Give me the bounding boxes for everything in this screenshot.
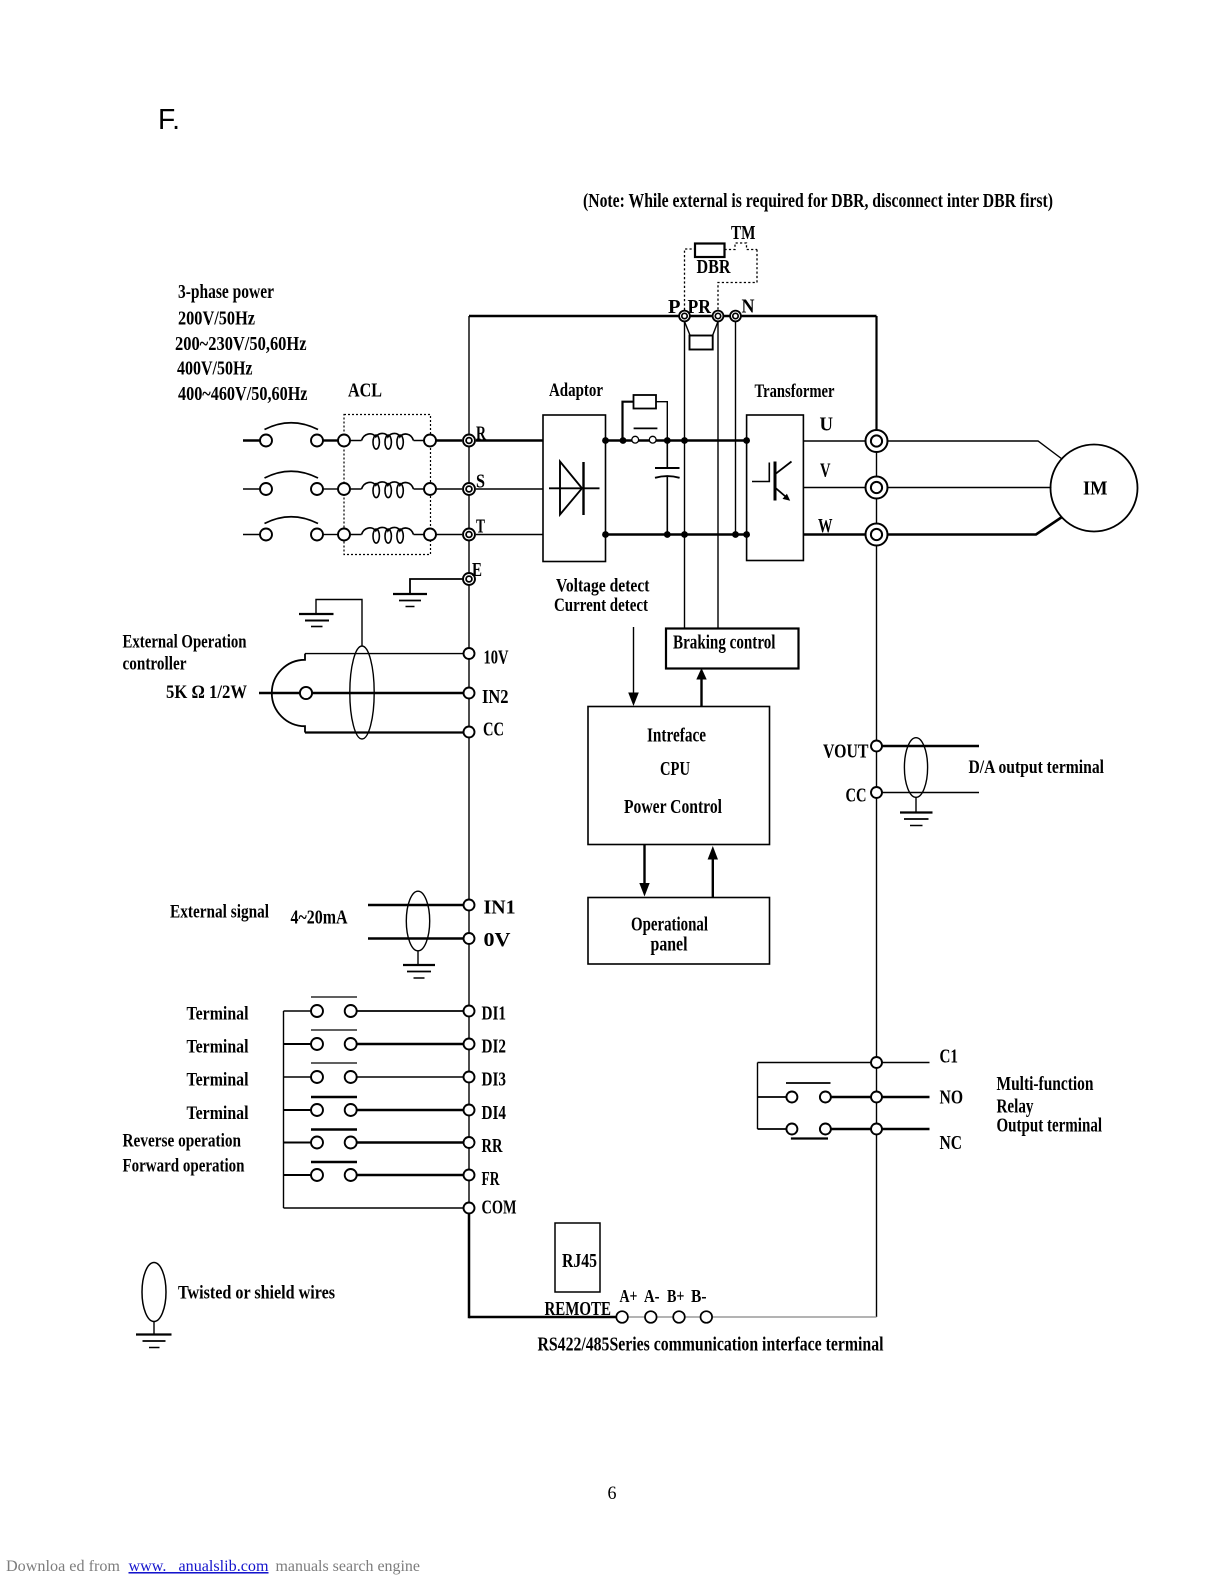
svg-text:R: R <box>476 424 487 445</box>
bottom bus bold <box>469 1316 617 1319</box>
resistor DBR <box>695 244 725 258</box>
wire ACL to terminal T <box>436 534 462 536</box>
svg-text:Transformer: Transformer <box>755 381 835 402</box>
dotted wire P to DBR <box>685 249 696 310</box>
phase row R: wire <box>243 439 260 441</box>
ACL R output circle <box>424 435 436 447</box>
svg-text:RR: RR <box>482 1136 504 1157</box>
inductor L1 coil <box>362 433 414 440</box>
wire ACL to terminal R <box>436 439 462 441</box>
svg-text:Current detect: Current detect <box>554 595 649 616</box>
svg-text:T: T <box>476 517 485 538</box>
svg-text:200~230V/50,60Hz: 200~230V/50,60Hz <box>175 334 307 355</box>
svg-text:DI3: DI3 <box>482 1070 507 1091</box>
svg-text:Terminal: Terminal <box>187 1103 249 1124</box>
adaptor resistor <box>634 395 657 409</box>
svg-text:E: E <box>472 560 482 581</box>
coil lead wires <box>350 534 424 536</box>
relay bracket <box>757 1063 759 1130</box>
DI3 stub <box>284 1076 312 1078</box>
RJ45 box <box>555 1223 600 1292</box>
phase row S: wire <box>243 488 260 490</box>
svg-text:N: N <box>742 296 755 318</box>
transformer box <box>747 415 804 561</box>
DC- bus <box>606 533 747 535</box>
shield ellipse D/A <box>904 738 927 798</box>
adaptor resistor right leg <box>656 402 667 441</box>
switch NO bar <box>786 1082 831 1084</box>
IGBT Q1 <box>752 462 792 501</box>
switch DI4 bar <box>311 1096 357 1098</box>
dotted wire TM to PR <box>718 250 757 311</box>
switch DI1 bar <box>311 996 357 998</box>
svg-text:CC: CC <box>846 786 867 807</box>
svg-text:4~20mA: 4~20mA <box>291 908 348 929</box>
svg-text:Relay: Relay <box>997 1097 1034 1118</box>
left terminal bus <box>468 316 470 1208</box>
svg-text:5K Ω 1/2W: 5K Ω 1/2W <box>166 682 247 703</box>
switch T contact left <box>260 529 272 541</box>
svg-text:PR: PR <box>688 296 712 318</box>
wire DI4 <box>357 1109 463 1111</box>
ACL T output circle <box>424 529 436 541</box>
switch R contact left <box>260 435 272 447</box>
switch RR circles <box>311 1137 357 1149</box>
shield ellipse external signal <box>406 891 429 951</box>
adaptor resistor left leg <box>623 402 634 441</box>
svg-text:TM: TM <box>731 223 756 244</box>
FR stub <box>284 1174 312 1176</box>
svg-text:(Note: While external is requi: (Note: While external is required for DB… <box>583 191 1053 212</box>
right bus lower <box>876 441 878 1317</box>
svg-text:U: U <box>820 414 834 436</box>
arrow detect to CPU <box>628 627 639 706</box>
svg-text:Downloa ed fromwww. anualsli: Downloa ed fromwww. anualslib.commanuals… <box>6 1558 420 1575</box>
capacitor C1 bottom lead <box>666 477 668 535</box>
DI1 stub <box>284 1010 312 1012</box>
arrow CPU to braking control <box>696 668 706 707</box>
braking control box <box>666 629 799 669</box>
svg-text:panel: panel <box>651 935 688 956</box>
terminal IN1 <box>464 900 475 911</box>
potentiometer body <box>272 654 305 733</box>
svg-text:NO: NO <box>940 1088 964 1109</box>
svg-text:Twisted or shield wires: Twisted or shield wires <box>178 1283 335 1304</box>
DC+ bus <box>606 439 747 441</box>
shield drain wire <box>316 600 362 647</box>
svg-text:A-: A- <box>644 1286 660 1306</box>
svg-text:A+: A+ <box>620 1286 638 1306</box>
svg-text:ACL: ACL <box>348 381 382 402</box>
switch S contact right <box>311 483 323 495</box>
switch DI3 circles <box>311 1071 357 1083</box>
terminal T <box>463 529 475 541</box>
shield external drain <box>417 951 419 964</box>
switch FR bar <box>311 1161 357 1163</box>
svg-text:DI4: DI4 <box>482 1103 507 1124</box>
wire IN2 <box>312 692 464 694</box>
svg-text:IN2: IN2 <box>482 687 509 708</box>
adaptor contact circle right <box>649 436 656 443</box>
wire P down to braking control <box>684 316 686 629</box>
svg-text:NC: NC <box>940 1133 963 1154</box>
coil lead wires <box>350 440 424 442</box>
ACL R input circle <box>338 435 350 447</box>
switch DI1 circles <box>311 1005 357 1017</box>
wire top bus <box>469 315 877 318</box>
svg-text:D/A output terminal: D/A output terminal <box>969 757 1105 778</box>
wire COM <box>284 1207 464 1209</box>
switch FR circles <box>311 1169 357 1181</box>
svg-text:W: W <box>818 515 833 537</box>
jumper bar P-PR <box>685 322 719 350</box>
wire V terminal to motor <box>887 487 1051 489</box>
svg-text:C1: C1 <box>940 1047 959 1068</box>
ground external signal <box>403 965 435 978</box>
svg-text:400~460V/50,60Hz: 400~460V/50,60Hz <box>178 384 308 405</box>
inductor L2 coil <box>362 482 414 489</box>
svg-text:CC: CC <box>483 720 504 741</box>
wire T to rectifier <box>476 534 543 536</box>
dotted wire DBR to TM contact <box>725 243 758 250</box>
svg-text:External signal: External signal <box>170 902 269 923</box>
wire R to rectifier <box>476 439 543 441</box>
svg-text:Forward operation: Forward operation <box>123 1156 245 1177</box>
wire NC left <box>758 1128 787 1130</box>
terminal S <box>463 483 475 495</box>
wire NO left <box>758 1096 787 1098</box>
svg-text:REMOTE: REMOTE <box>545 1299 612 1320</box>
wire S switch to ACL <box>323 488 338 490</box>
terminal 10V <box>464 648 475 659</box>
svg-text:Power Control: Power Control <box>624 797 722 818</box>
shield ellipse controller <box>350 646 374 739</box>
svg-text:FR: FR <box>482 1169 501 1190</box>
switch T contact right <box>311 529 323 541</box>
wire PR down to braking control <box>717 316 719 629</box>
wire V to terminal <box>803 487 865 489</box>
svg-text:3-phase power: 3-phase power <box>178 282 274 303</box>
operational panel box <box>588 898 770 965</box>
terminal U <box>866 430 888 452</box>
left bus bold segment below COM <box>468 1208 471 1318</box>
wire RR <box>357 1141 463 1143</box>
svg-text:IN1: IN1 <box>484 898 516 919</box>
svg-text:P: P <box>668 296 681 318</box>
terminal C1 <box>871 1057 882 1068</box>
svg-text:RJ45: RJ45 <box>562 1251 597 1272</box>
svg-text:controller: controller <box>123 654 187 675</box>
svg-text:Intreface: Intreface <box>647 726 706 747</box>
svg-text:IM: IM <box>1083 478 1108 500</box>
wire DI3 <box>357 1076 463 1078</box>
terminal V <box>866 477 888 499</box>
terminal 0V <box>464 933 475 944</box>
terminal A+ <box>616 1311 628 1323</box>
svg-text:0V: 0V <box>484 930 511 951</box>
svg-text:Terminal: Terminal <box>187 1070 249 1091</box>
adaptor contact circle left <box>632 436 639 443</box>
terminal N <box>730 311 741 322</box>
ground shield <box>299 614 334 627</box>
svg-text:Braking control: Braking control <box>673 633 776 654</box>
terminal IN2 <box>464 688 475 699</box>
switch NC circles <box>786 1124 831 1135</box>
twisted wires drain <box>153 1321 155 1334</box>
terminal B- <box>701 1311 713 1323</box>
ACL S input circle <box>338 483 350 495</box>
terminal PR <box>713 311 724 322</box>
terminal NC <box>871 1124 882 1135</box>
wire CC right <box>882 792 979 794</box>
svg-text:Terminal: Terminal <box>187 1037 249 1058</box>
wire NO right <box>831 1096 871 1098</box>
junction dots DC+ bus <box>602 437 750 444</box>
switch NC bar <box>791 1137 828 1139</box>
wire W terminal to motor <box>887 517 1062 535</box>
wire T switch to ACL <box>323 534 338 536</box>
svg-text:400V/50Hz: 400V/50Hz <box>177 359 253 380</box>
svg-text:Output terminal: Output terminal <box>997 1116 1103 1137</box>
terminal CC <box>464 727 475 738</box>
svg-text:CPU: CPU <box>660 758 690 780</box>
wire U terminal to motor <box>887 441 1062 459</box>
switch DI4 circles <box>311 1104 357 1116</box>
RR stub <box>284 1142 312 1144</box>
terminal VOUT <box>871 741 882 752</box>
switch DI2 bar <box>311 1029 357 1031</box>
terminal P <box>679 311 690 322</box>
switch DI2 circles <box>311 1038 357 1050</box>
wire DI1 <box>357 1010 463 1012</box>
wire IN1 <box>368 904 463 906</box>
arrow panel to CPU <box>708 846 718 898</box>
wire DI2 <box>357 1043 463 1045</box>
DI left bus <box>283 1011 285 1208</box>
svg-text:F.: F. <box>158 104 180 136</box>
svg-text:DI1: DI1 <box>482 1004 507 1025</box>
svg-text:200V/50Hz: 200V/50Hz <box>178 309 255 330</box>
svg-text:Reverse operation: Reverse operation <box>123 1131 242 1152</box>
ground D/A <box>900 813 933 826</box>
terminal B+ <box>673 1311 685 1323</box>
svg-text:COM: COM <box>482 1198 517 1219</box>
capacitor C1 plates <box>655 468 680 478</box>
wire C1 stub right <box>882 1062 929 1064</box>
twisted wires ellipse <box>142 1263 166 1322</box>
DI terminals <box>464 1006 475 1214</box>
svg-text:DI2: DI2 <box>482 1037 507 1058</box>
svg-text:DBR: DBR <box>697 257 732 278</box>
svg-text:Adaptor: Adaptor <box>549 380 603 401</box>
terminal CC right <box>871 787 882 798</box>
coil lead wires <box>350 488 424 490</box>
terminal NO <box>871 1092 882 1103</box>
ACL S output circle <box>424 483 436 495</box>
potentiometer wiper wire <box>259 692 300 694</box>
svg-text:V: V <box>820 460 831 482</box>
svg-text:Voltage detect: Voltage detect <box>556 576 650 597</box>
svg-text:Multi-function: Multi-function <box>997 1074 1094 1095</box>
terminal W <box>866 524 888 546</box>
wire NC right <box>831 1128 871 1130</box>
svg-text:Operational: Operational <box>631 915 708 936</box>
wire W to terminal <box>803 533 865 536</box>
shield D/A drain <box>915 797 917 812</box>
wire 10V <box>305 653 464 655</box>
junction dots DC- bus <box>602 531 750 538</box>
motor IM <box>1051 445 1138 532</box>
wire ACL to terminal S <box>436 488 462 490</box>
right terminal bus <box>875 316 877 441</box>
svg-text:6: 6 <box>608 1483 617 1504</box>
svg-text:B-: B- <box>691 1286 707 1306</box>
svg-text:VOUT: VOUT <box>823 742 869 763</box>
terminal A- <box>645 1311 657 1323</box>
svg-text:RS422/485Series communication: RS422/485Series communication interface … <box>538 1335 884 1356</box>
bottom bus gray <box>617 1316 877 1318</box>
switch T blade arc <box>265 517 319 524</box>
svg-text:Terminal: Terminal <box>187 1004 249 1025</box>
CPU box <box>588 707 770 845</box>
wire S to rectifier <box>476 488 543 490</box>
ground E <box>393 594 427 607</box>
switch S contact left <box>260 483 272 495</box>
potentiometer wiper circle <box>300 687 312 699</box>
DI2 stub <box>284 1043 312 1045</box>
DI4 stub <box>284 1109 312 1111</box>
wire CC <box>305 731 464 733</box>
switch S blade arc <box>265 471 319 478</box>
wire VOUT <box>882 745 979 747</box>
svg-text:10V: 10V <box>484 648 509 669</box>
wire R switch to ACL <box>323 439 338 441</box>
capacitor C1 top lead <box>666 441 668 468</box>
switch R blade arc <box>265 423 319 430</box>
rectifier diode <box>549 462 600 516</box>
wire NO stub right <box>882 1096 929 1098</box>
ACL dotted box <box>344 415 431 555</box>
wire E to ground <box>410 579 463 593</box>
rectifier box <box>543 415 606 562</box>
wire 0V <box>368 937 463 939</box>
inductor L3 coil <box>362 527 414 534</box>
wire U to terminal <box>803 440 865 442</box>
wire N down to DC- bus <box>735 316 737 535</box>
svg-text:External Operation: External Operation <box>123 632 247 653</box>
switch NO circles <box>786 1092 831 1103</box>
wire FR <box>357 1174 463 1176</box>
ground twisted <box>136 1335 172 1348</box>
wire C1 <box>758 1062 871 1064</box>
switch DI3 bar <box>311 1062 357 1064</box>
arrow CPU to panel <box>639 845 649 897</box>
svg-text:B+: B+ <box>667 1286 685 1306</box>
adaptor contact bar <box>634 427 658 429</box>
switch R contact right <box>311 435 323 447</box>
terminal E <box>463 573 475 585</box>
switch RR bar <box>311 1128 357 1130</box>
phase row T: wire <box>243 534 260 536</box>
terminal R <box>463 435 475 447</box>
ACL T input circle <box>338 529 350 541</box>
svg-text:S: S <box>476 472 485 493</box>
wire NC stub right <box>882 1128 929 1130</box>
